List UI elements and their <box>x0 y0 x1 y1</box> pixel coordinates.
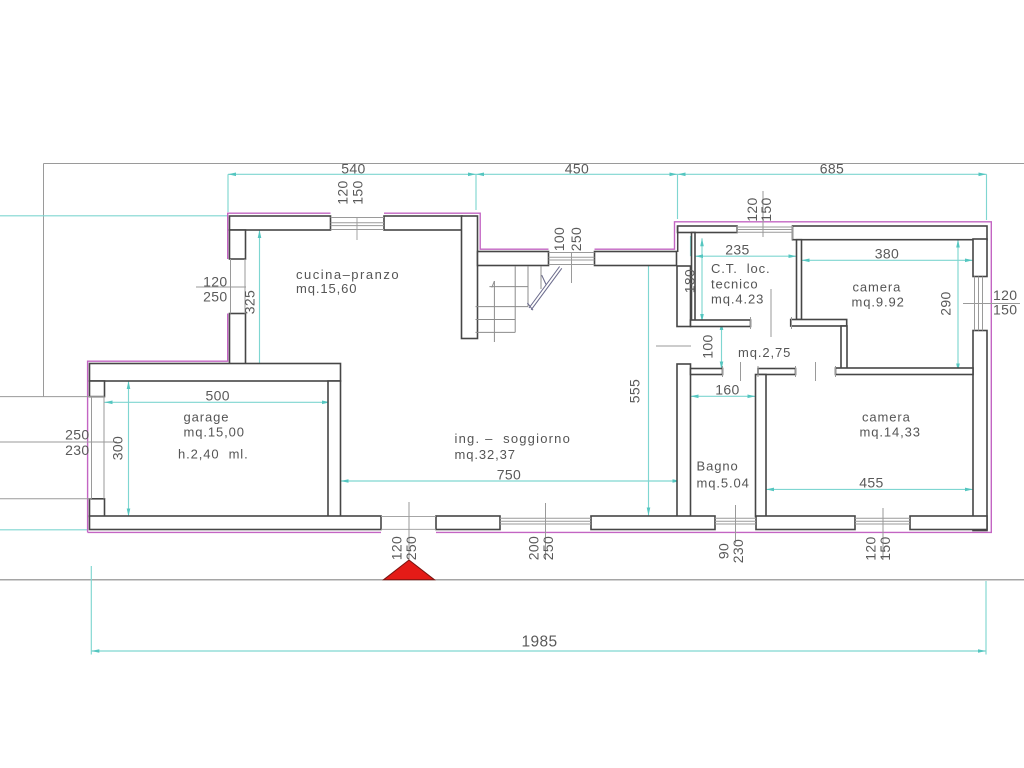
svg-text:camera: camera <box>853 280 902 295</box>
dimension line 300 garage <box>128 381 130 517</box>
wall cucina west lower <box>230 314 246 365</box>
door ct centerline <box>770 289 772 337</box>
svg-text:500: 500 <box>205 388 229 404</box>
wall connector line segB to north wall <box>677 226 679 252</box>
svg-text:1985: 1985 <box>522 634 558 651</box>
window south 120 sills <box>855 517 910 519</box>
dimension line 160 bagno <box>688 395 758 397</box>
dimension line 180 ct <box>701 238 703 322</box>
dimension line 750 soggiorno <box>341 480 681 482</box>
svg-text:ing. – soggiorno: ing. – soggiorno <box>455 431 572 446</box>
wall north camera section <box>793 226 988 240</box>
garage door sills <box>91 397 93 499</box>
wall bagno east <box>756 375 767 517</box>
wall garage west lower <box>90 499 105 517</box>
wall south piece window-bagno <box>591 516 715 530</box>
dimension line 235 ct <box>695 255 797 257</box>
wall ct south <box>691 320 751 327</box>
svg-text:tecnico: tecnico <box>711 277 759 292</box>
svg-text:250: 250 <box>203 289 227 305</box>
stairs break line <box>527 267 561 311</box>
extension line 750 right <box>680 474 682 516</box>
svg-text:150: 150 <box>758 197 774 221</box>
svg-text:120: 120 <box>203 274 227 290</box>
cyan setback line left lower <box>0 529 88 531</box>
extension line top x476 <box>475 174 477 210</box>
svg-text:555: 555 <box>627 379 643 403</box>
wall cucina east <box>462 216 478 339</box>
svg-text:230: 230 <box>730 539 746 563</box>
window east sills <box>974 277 976 331</box>
door ct jamb ticks <box>750 317 752 329</box>
svg-text:290: 290 <box>938 291 954 315</box>
wall cucina west upper <box>230 230 246 259</box>
wall cucina top-left <box>230 216 331 230</box>
opening soggiorno-corridoio centerline <box>656 345 691 347</box>
svg-text:180: 180 <box>682 269 698 293</box>
svg-text:h.2,40 ml.: h.2,40 ml. <box>178 447 249 462</box>
svg-text:250: 250 <box>65 427 89 443</box>
cyan setback line left upper <box>0 215 228 217</box>
wall camera992 west thin <box>797 240 802 320</box>
extension line top x986.5 <box>986 174 988 220</box>
svg-text:150: 150 <box>350 180 366 204</box>
north arrow triangle <box>384 560 435 580</box>
wall north recessed left <box>478 252 549 266</box>
svg-text:mq.15,60: mq.15,60 <box>296 281 357 296</box>
wall stub vertical <box>841 326 847 369</box>
road line <box>0 579 1024 581</box>
door camera1433 centerline <box>815 362 817 381</box>
svg-text:mq.9.92: mq.9.92 <box>852 295 905 310</box>
wall west of bagno lower <box>677 364 691 517</box>
svg-text:camera: camera <box>862 410 911 425</box>
svg-text:235: 235 <box>725 242 749 258</box>
extension line garage door bottom <box>0 498 91 500</box>
svg-text:100: 100 <box>551 227 567 251</box>
extension line 235 left <box>690 236 692 256</box>
stairs <box>476 266 542 342</box>
svg-text:325: 325 <box>242 290 258 314</box>
wall west of corridoio-bagno upper <box>677 266 691 327</box>
svg-text:100: 100 <box>700 334 716 358</box>
window south 90 sills <box>715 517 756 519</box>
lot boundary left line <box>43 164 45 397</box>
dimension line 100 corridoio <box>721 322 723 370</box>
extension line garage door mid <box>0 441 117 443</box>
wall corridoio south piece1 <box>691 369 723 375</box>
svg-text:150: 150 <box>877 536 893 560</box>
extension line garage door top <box>0 396 105 398</box>
wall garage west upper <box>90 381 105 397</box>
svg-text:Bagno: Bagno <box>697 459 739 474</box>
svg-text:150: 150 <box>993 302 1017 318</box>
wall camera1433 north <box>836 368 974 375</box>
svg-text:455: 455 <box>859 474 883 490</box>
svg-text:685: 685 <box>820 160 844 176</box>
svg-text:cucina–pranzo: cucina–pranzo <box>296 267 400 282</box>
svg-text:160: 160 <box>715 382 739 398</box>
walls <box>90 216 988 531</box>
door bagno jamb ticks <box>722 366 724 377</box>
dimension line 500 garage <box>105 401 331 403</box>
wall south piece bagno-camera <box>756 516 855 530</box>
svg-text:380: 380 <box>875 246 899 262</box>
window sills and thin details <box>0 191 1020 560</box>
wall north-east thin section <box>678 226 738 233</box>
svg-text:mq.14,33: mq.14,33 <box>860 425 921 440</box>
wall east upper <box>973 239 987 277</box>
window segB sills <box>549 252 595 254</box>
wall cucina top-right <box>384 216 462 230</box>
dimension line top (540/450/685) <box>228 173 987 175</box>
lot boundary top line <box>44 163 1024 165</box>
extension line top x228 <box>227 174 229 212</box>
extension line 1985 left <box>90 566 92 655</box>
svg-text:230: 230 <box>65 442 89 458</box>
svg-text:540: 540 <box>341 160 365 176</box>
extension line top x677.5 <box>677 174 679 219</box>
dimension line 325 cucina <box>259 230 261 379</box>
wall south piece garage-soggiorno <box>90 516 382 530</box>
svg-text:mq.32,37: mq.32,37 <box>455 447 516 462</box>
window cucina west sills <box>230 259 232 314</box>
svg-text:250: 250 <box>403 536 419 560</box>
dimension arrows <box>91 173 986 653</box>
svg-text:mq.15,00: mq.15,00 <box>184 425 245 440</box>
wall south piece door-window <box>436 516 500 530</box>
wall ct west thin <box>692 233 696 321</box>
extension line 380 left <box>800 244 802 264</box>
dimension line 1985 <box>91 650 986 652</box>
entrance door face lines <box>381 516 436 518</box>
svg-text:250: 250 <box>540 536 556 560</box>
svg-text:mq.4.23: mq.4.23 <box>711 292 764 307</box>
svg-text:250: 250 <box>568 227 584 251</box>
entrance door centerline <box>408 502 410 560</box>
wall stub horizontal south of camera992 <box>791 320 847 327</box>
svg-text:mq.5.04: mq.5.04 <box>697 476 750 491</box>
dimension line 455 camera <box>766 488 973 490</box>
dimension line 290 camera <box>957 240 959 372</box>
svg-text:C.T. loc.: C.T. loc. <box>711 261 771 276</box>
window south 200 sills <box>500 517 591 519</box>
window cucina north sills <box>331 217 385 219</box>
door camera1433 jamb ticks <box>795 366 797 377</box>
svg-text:garage: garage <box>184 410 230 425</box>
svg-text:300: 300 <box>110 436 126 460</box>
wall south piece east corner <box>910 516 987 530</box>
wall east lower <box>973 331 987 531</box>
svg-text:120: 120 <box>335 180 351 204</box>
svg-text:450: 450 <box>565 160 589 176</box>
magenta exterior outline <box>88 213 992 532</box>
extension line 1985 right <box>985 581 987 655</box>
dimension line 380 camera <box>802 259 974 261</box>
wall corridoio south piece2 <box>758 369 796 375</box>
window ct sills <box>737 226 793 228</box>
wall north recessed right <box>595 252 677 266</box>
dimension line 555 soggiorno <box>648 252 650 516</box>
wall garage east <box>328 381 341 517</box>
wall garage top <box>90 364 341 382</box>
svg-text:mq.2,75: mq.2,75 <box>738 345 791 360</box>
door bagno centerline <box>740 362 742 381</box>
svg-text:750: 750 <box>497 466 521 482</box>
